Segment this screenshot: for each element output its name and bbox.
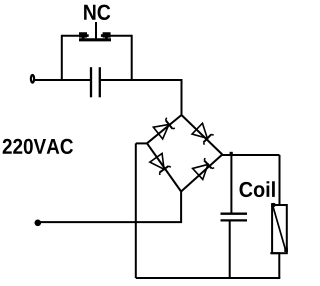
wire switch right drop — [131, 35, 133, 81]
wire bridge side top-right — [182, 115, 223, 155]
wire switch left drop — [61, 35, 63, 81]
switch SW1 left contact — [79, 32, 89, 39]
wire bridge bottom drop — [180, 192, 182, 223]
capacitor C2 bottom plate — [221, 219, 248, 221]
wire bridge side top-left — [147, 115, 182, 143]
terminal T2 — [35, 220, 42, 227]
wire bottom return — [136, 277, 280, 279]
wire coil top lead — [279, 155, 281, 206]
relay coil K1 corner dot bottom — [284, 248, 288, 253]
diode D3 — [150, 153, 172, 175]
switch SW1 actuator — [95, 22, 97, 39]
wire bridge side bottom-left — [147, 143, 181, 191]
relay coil K1 body — [272, 205, 287, 253]
diode D4 — [193, 157, 215, 179]
wire cap branch down — [230, 155, 232, 213]
wire cap to bottom — [229, 221, 231, 278]
switch SW1 bar — [79, 38, 111, 41]
wire bridge left stub — [136, 142, 147, 144]
wire top right — [101, 79, 182, 81]
label Coil — [240, 181, 275, 197]
wire bottom AC — [38, 221, 182, 223]
wire top left — [35, 79, 90, 81]
label 220VAC — [3, 139, 73, 154]
wire coil bottom lead — [270, 252, 280, 254]
wire bridge right to coil — [222, 154, 279, 156]
capacitor C1 left plate — [90, 67, 92, 97]
relay coil K1 corner dot top — [271, 203, 275, 207]
capacitor C2 top plate — [221, 213, 248, 215]
diode D2 — [192, 123, 214, 145]
wire switch left lead — [62, 35, 80, 37]
switch SW1 right contact — [101, 32, 111, 39]
capacitor C1 right plate — [99, 67, 101, 97]
node junction cap branch — [230, 152, 233, 155]
terminal T1 — [31, 75, 34, 83]
relay coil K1 diagonal — [273, 207, 286, 252]
diode D1 — [153, 117, 175, 139]
wire down to bridge top — [181, 79, 183, 116]
wire switch right lead — [110, 35, 132, 37]
wire bridge side bottom-right — [181, 155, 222, 192]
wire left drop to bottom — [135, 143, 137, 278]
label NC — [84, 5, 110, 20]
